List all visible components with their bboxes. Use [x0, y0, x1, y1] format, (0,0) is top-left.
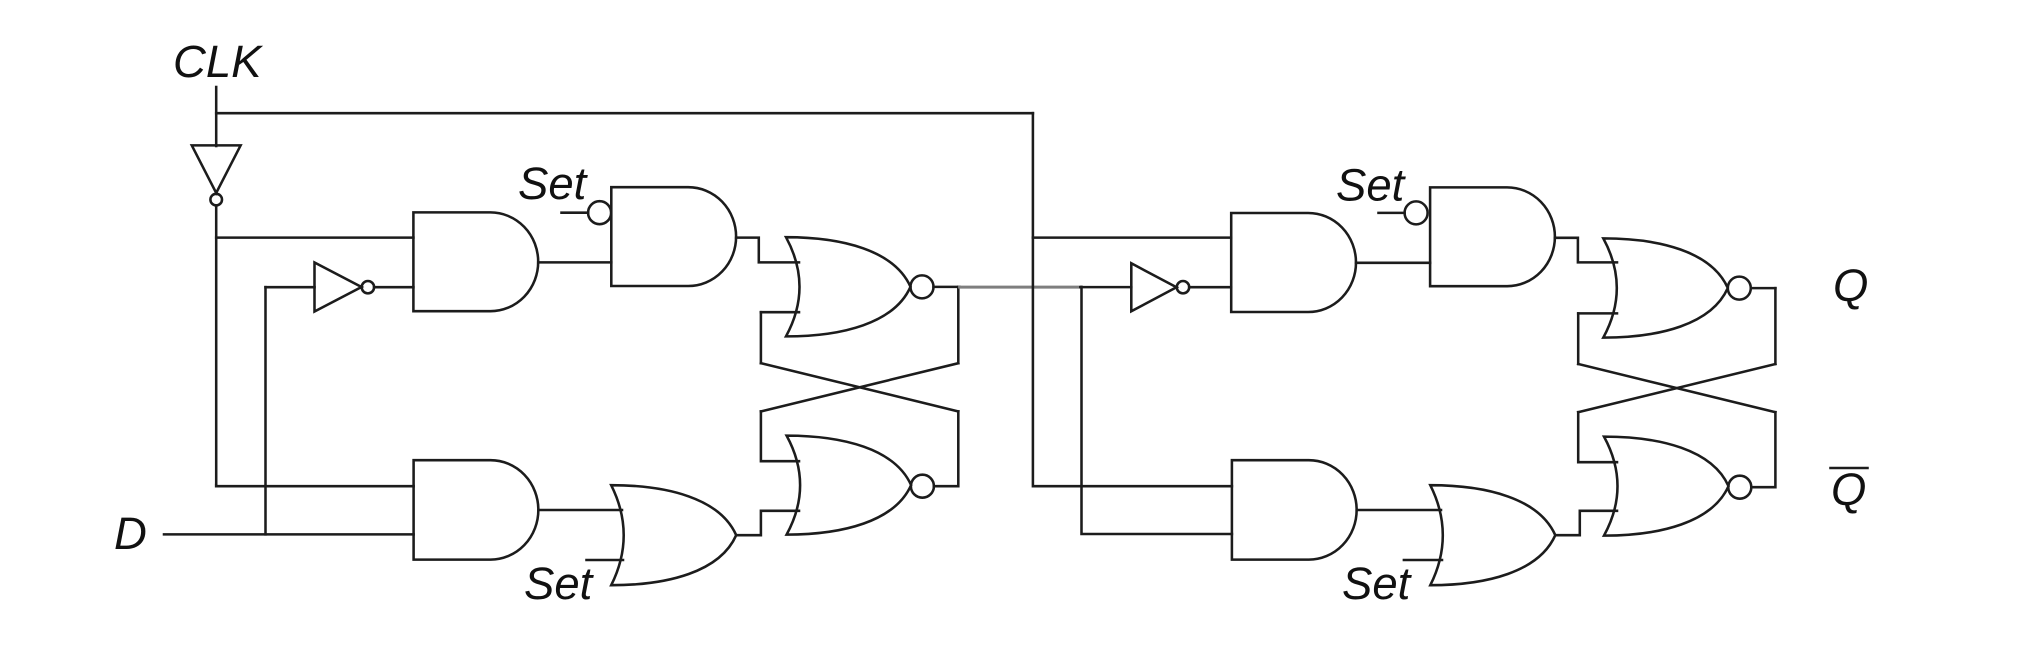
wire U5 output to stage 2 (gray segment) [960, 286, 1081, 289]
svg-text:D: D [114, 508, 147, 559]
svg-text:Set: Set [518, 158, 589, 209]
wire U8 output to U6 input B [736, 511, 799, 535]
wire U5 input B [761, 311, 799, 314]
nor-gate U6 [787, 436, 934, 535]
bubble U4 inverted input [588, 201, 611, 224]
wire Set input to U8 [587, 559, 624, 562]
wire CLK lead [215, 87, 218, 146]
svg-text:Set: Set [1342, 558, 1413, 609]
bubble U11 inverted input [1405, 201, 1428, 224]
wire U12 output stub [1751, 287, 1776, 290]
node D label [114, 508, 147, 559]
svg-text:Q: Q [1833, 260, 1868, 311]
wire cross-couple diagonal (U12 out to U13 inA) [1578, 364, 1775, 412]
wire CLK bus drop [1033, 113, 1232, 486]
svg-text:CLK: CLK [173, 36, 264, 87]
or-gate U8 [611, 485, 736, 585]
wire U7 output to U8 [538, 509, 622, 512]
svg-text:Set: Set [524, 558, 595, 609]
wire Set input to U4 [562, 211, 589, 214]
node CLK label [173, 36, 264, 87]
wire CLK-bar vertical [215, 205, 218, 486]
wire U6 output [934, 411, 958, 486]
wire top CLK bus [216, 112, 1033, 115]
and-gate U10 [1231, 213, 1356, 312]
wire U10 output to U11 [1356, 262, 1430, 265]
and-gate U14 [1232, 460, 1357, 559]
wire cross-couple diagonal (U5 out to U6 inA) [761, 363, 958, 411]
wire U13 input A [1578, 412, 1617, 462]
inverter U9 [1131, 263, 1189, 311]
wire U3 output to U4 [538, 261, 611, 264]
wire U6 input A [761, 411, 799, 461]
nor-gate U13 [1604, 437, 1751, 536]
wire U9 output to U10 [1189, 286, 1231, 289]
wire Set input to U15 [1404, 559, 1442, 562]
wire CLK-bar corner to U7 input [216, 485, 413, 486]
and-gate U3 [413, 212, 538, 311]
node Set label (U11) [1336, 160, 1407, 211]
wire U5 output vertical [957, 287, 960, 363]
wire U5 output to stage 2 (dark segment) [934, 286, 960, 289]
inverter U2 [315, 263, 375, 312]
wire CLK-bar to U3 input [216, 236, 413, 239]
nand-gate U11 (AND w/ inverted input) [1430, 187, 1555, 286]
node Q-bar label [1831, 464, 1868, 515]
and-gate U7 [414, 460, 539, 559]
wire D to U2 input [266, 286, 315, 289]
svg-text:Q: Q [1831, 464, 1866, 515]
wire U13 output [1751, 412, 1775, 487]
wire U12 input B [1578, 312, 1617, 315]
wire U15 output to U13 input B [1555, 511, 1617, 535]
node Set label (U15) [1342, 558, 1413, 609]
wire cross-couple diagonal (U12 inB to U13 out) [1578, 364, 1775, 412]
wire U5 input B vertical [760, 312, 763, 363]
wire master-out branch vertical [1082, 287, 1232, 534]
wire D input [164, 533, 414, 536]
node Set label (U8) [524, 558, 595, 609]
wire U11 output to U12 input A [1555, 238, 1617, 263]
wire D branch vertical [264, 287, 267, 534]
wire U12 output vertical [1774, 288, 1777, 364]
wire U12 input B vertical [1577, 313, 1580, 364]
nor-gate U5 [786, 237, 934, 336]
node Q label [1833, 260, 1868, 311]
or-gate U15 [1430, 485, 1555, 585]
wire U14 output to U15 [1357, 509, 1441, 512]
inverter U1 (CLK inverter) [192, 145, 241, 205]
wire Set input to U11 [1379, 212, 1405, 215]
wire U2 output to U3 [374, 286, 413, 289]
wire cross-couple diagonal (U5 inB to U6 out) [761, 363, 958, 411]
nand-gate U4 (AND w/ inverted input) [611, 187, 736, 286]
wire CLK to U10 input [1033, 236, 1231, 239]
wire U4 output to U5 input A [736, 238, 799, 263]
svg-text:Set: Set [1336, 160, 1407, 211]
node Set label (U4) [518, 158, 589, 209]
nor-gate U12 [1603, 238, 1751, 337]
wire U5 output to stage 2 (dark segment 2) [1080, 286, 1131, 289]
